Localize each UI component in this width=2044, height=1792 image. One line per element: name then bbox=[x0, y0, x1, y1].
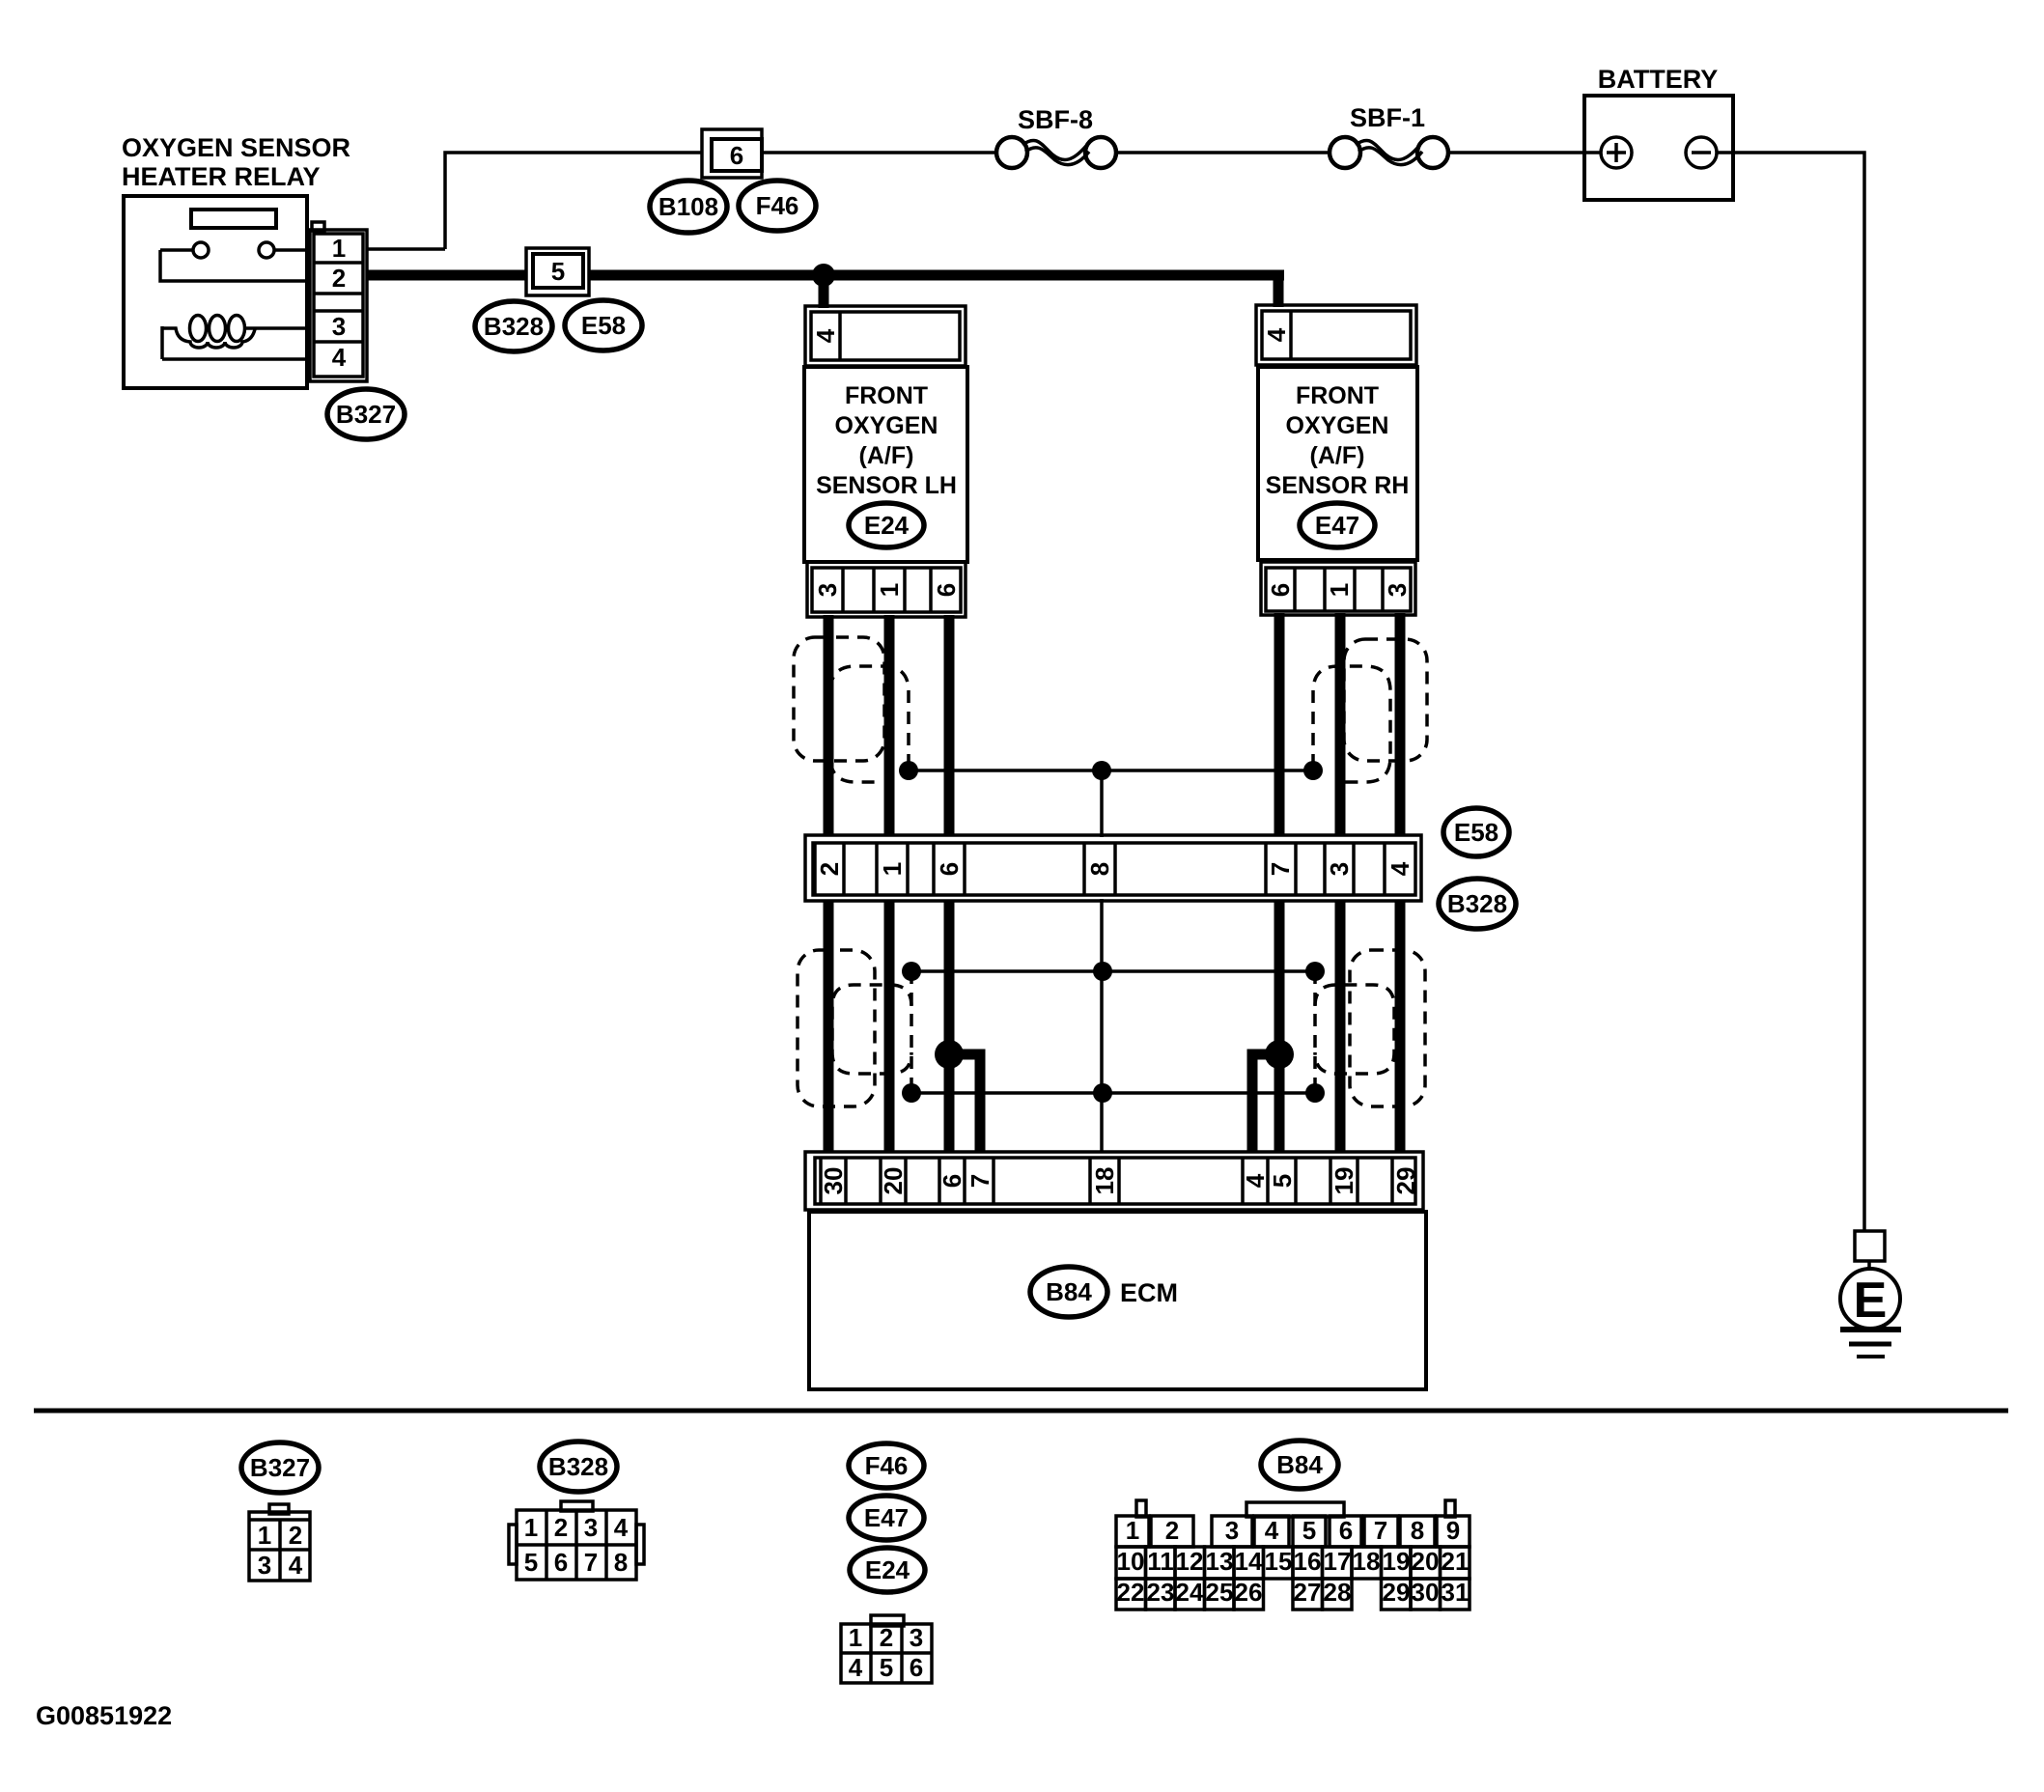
svg-text:16: 16 bbox=[1294, 1547, 1322, 1576]
svg-text:19: 19 bbox=[1330, 1167, 1358, 1195]
svg-text:BATTERY: BATTERY bbox=[1598, 65, 1719, 94]
svg-text:2: 2 bbox=[289, 1521, 302, 1550]
svg-text:13: 13 bbox=[1206, 1547, 1234, 1576]
svg-text:6: 6 bbox=[554, 1548, 568, 1577]
svg-text:18: 18 bbox=[1090, 1167, 1119, 1195]
svg-text:HEATER RELAY: HEATER RELAY bbox=[122, 162, 321, 191]
svg-text:3: 3 bbox=[258, 1551, 271, 1580]
svg-text:2: 2 bbox=[880, 1623, 893, 1652]
svg-text:5: 5 bbox=[1302, 1516, 1316, 1545]
svg-text:E58: E58 bbox=[1454, 818, 1498, 847]
svg-text:4: 4 bbox=[1262, 327, 1291, 342]
svg-text:3: 3 bbox=[1325, 862, 1354, 876]
svg-text:6: 6 bbox=[1266, 583, 1295, 597]
svg-text:B328: B328 bbox=[548, 1452, 608, 1481]
svg-text:4: 4 bbox=[811, 328, 840, 343]
svg-text:6: 6 bbox=[1339, 1516, 1353, 1545]
svg-text:7: 7 bbox=[966, 1174, 994, 1188]
svg-text:3: 3 bbox=[1383, 583, 1412, 597]
svg-text:3: 3 bbox=[813, 583, 842, 597]
svg-text:3: 3 bbox=[910, 1623, 923, 1652]
svg-text:20: 20 bbox=[1412, 1547, 1440, 1576]
svg-text:6: 6 bbox=[935, 862, 964, 876]
svg-text:11: 11 bbox=[1147, 1547, 1174, 1576]
svg-text:E24: E24 bbox=[864, 511, 910, 540]
svg-text:E47: E47 bbox=[1315, 511, 1359, 540]
svg-text:(A/F): (A/F) bbox=[859, 442, 914, 469]
svg-text:3: 3 bbox=[1225, 1516, 1239, 1545]
svg-text:20: 20 bbox=[879, 1167, 908, 1195]
svg-text:23: 23 bbox=[1147, 1578, 1175, 1607]
svg-text:B328: B328 bbox=[1447, 889, 1507, 918]
svg-text:6: 6 bbox=[910, 1653, 923, 1682]
svg-text:4: 4 bbox=[614, 1513, 629, 1542]
svg-text:2: 2 bbox=[554, 1513, 568, 1542]
svg-text:(A/F): (A/F) bbox=[1310, 442, 1365, 469]
svg-text:8: 8 bbox=[1085, 862, 1114, 876]
svg-text:29: 29 bbox=[1383, 1578, 1411, 1607]
svg-text:E: E bbox=[1854, 1273, 1888, 1329]
svg-text:9: 9 bbox=[1446, 1516, 1460, 1545]
svg-text:30: 30 bbox=[819, 1167, 848, 1195]
svg-text:B84: B84 bbox=[1276, 1450, 1323, 1479]
svg-text:27: 27 bbox=[1294, 1578, 1322, 1607]
svg-text:15: 15 bbox=[1265, 1547, 1293, 1576]
svg-text:4: 4 bbox=[1386, 861, 1414, 876]
svg-text:F46: F46 bbox=[756, 191, 799, 220]
svg-text:31: 31 bbox=[1442, 1578, 1470, 1607]
svg-text:OXYGEN SENSOR: OXYGEN SENSOR bbox=[122, 133, 350, 162]
svg-text:8: 8 bbox=[614, 1548, 628, 1577]
svg-text:10: 10 bbox=[1117, 1547, 1145, 1576]
svg-text:SBF-8: SBF-8 bbox=[1018, 105, 1093, 134]
svg-text:5: 5 bbox=[1268, 1174, 1297, 1188]
svg-text:B84: B84 bbox=[1046, 1277, 1092, 1306]
svg-text:30: 30 bbox=[1412, 1578, 1440, 1607]
svg-text:6: 6 bbox=[730, 141, 743, 170]
svg-text:24: 24 bbox=[1176, 1578, 1204, 1607]
svg-text:12: 12 bbox=[1176, 1547, 1204, 1576]
svg-text:4: 4 bbox=[1241, 1173, 1270, 1188]
svg-text:OXYGEN: OXYGEN bbox=[1286, 412, 1389, 439]
svg-text:G00851922: G00851922 bbox=[36, 1701, 172, 1730]
svg-text:1: 1 bbox=[878, 862, 907, 876]
svg-text:1: 1 bbox=[1325, 583, 1354, 597]
svg-text:1: 1 bbox=[258, 1521, 271, 1550]
svg-text:SBF-1: SBF-1 bbox=[1350, 103, 1425, 132]
svg-text:SENSOR LH: SENSOR LH bbox=[816, 472, 957, 499]
svg-text:2: 2 bbox=[332, 264, 346, 293]
svg-text:22: 22 bbox=[1117, 1578, 1145, 1607]
svg-text:4: 4 bbox=[1265, 1516, 1279, 1545]
svg-text:3: 3 bbox=[332, 312, 346, 341]
svg-text:21: 21 bbox=[1442, 1547, 1470, 1576]
svg-text:4: 4 bbox=[332, 343, 347, 372]
svg-text:E58: E58 bbox=[581, 311, 626, 340]
svg-text:7: 7 bbox=[1266, 862, 1295, 876]
svg-text:19: 19 bbox=[1383, 1547, 1411, 1576]
svg-text:1: 1 bbox=[875, 583, 904, 597]
svg-text:FRONT: FRONT bbox=[845, 382, 928, 409]
svg-text:B327: B327 bbox=[336, 400, 396, 429]
svg-text:1: 1 bbox=[524, 1513, 538, 1542]
svg-text:5: 5 bbox=[880, 1653, 893, 1682]
svg-text:2: 2 bbox=[815, 862, 844, 876]
svg-text:6: 6 bbox=[932, 583, 961, 597]
svg-text:B108: B108 bbox=[658, 192, 718, 221]
svg-text:7: 7 bbox=[1374, 1516, 1387, 1545]
svg-text:E24: E24 bbox=[865, 1555, 910, 1584]
svg-text:26: 26 bbox=[1235, 1578, 1263, 1607]
svg-text:6: 6 bbox=[938, 1174, 966, 1188]
svg-text:5: 5 bbox=[524, 1548, 538, 1577]
svg-text:1: 1 bbox=[332, 234, 346, 263]
svg-text:18: 18 bbox=[1353, 1547, 1381, 1576]
svg-text:FRONT: FRONT bbox=[1296, 382, 1379, 409]
svg-text:OXYGEN: OXYGEN bbox=[835, 412, 938, 439]
svg-text:28: 28 bbox=[1324, 1578, 1352, 1607]
svg-text:E47: E47 bbox=[864, 1503, 909, 1532]
svg-text:2: 2 bbox=[1165, 1516, 1179, 1545]
svg-text:1: 1 bbox=[1126, 1516, 1139, 1545]
svg-text:25: 25 bbox=[1206, 1578, 1234, 1607]
svg-text:SENSOR RH: SENSOR RH bbox=[1266, 472, 1410, 499]
svg-text:B327: B327 bbox=[250, 1453, 310, 1482]
svg-text:1: 1 bbox=[849, 1623, 862, 1652]
svg-text:7: 7 bbox=[584, 1548, 598, 1577]
svg-text:14: 14 bbox=[1235, 1547, 1263, 1576]
svg-text:F46: F46 bbox=[865, 1451, 909, 1480]
svg-text:4: 4 bbox=[849, 1653, 863, 1682]
svg-text:17: 17 bbox=[1324, 1547, 1352, 1576]
svg-text:4: 4 bbox=[289, 1551, 303, 1580]
svg-text:3: 3 bbox=[584, 1513, 598, 1542]
svg-text:29: 29 bbox=[1391, 1167, 1420, 1195]
svg-text:8: 8 bbox=[1411, 1516, 1424, 1545]
svg-text:B328: B328 bbox=[484, 312, 544, 341]
svg-text:ECM: ECM bbox=[1120, 1278, 1178, 1307]
svg-text:5: 5 bbox=[551, 257, 565, 286]
